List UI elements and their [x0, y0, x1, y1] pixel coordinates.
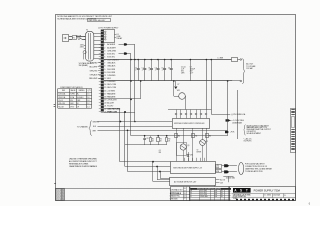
switch S1: [78, 38, 85, 39]
J1 pin stubs: [99, 45, 101, 112]
wire: [104, 109, 120, 162]
connector J3 pin 1: [222, 164, 237, 167]
connector J2 pin 2: [240, 80, 242, 82]
wire: [98, 121, 173, 123]
title block logo: [233, 188, 251, 193]
title block revisions panel: [189, 187, 231, 201]
label TO CHASSIS: [77, 121, 99, 136]
note (load requirement): [244, 124, 272, 135]
wire: [160, 172, 170, 179]
node +5.2VDC: [226, 119, 245, 124]
resistor R6: [206, 128, 212, 161]
node +12V UNREG: [211, 113, 246, 116]
wire: [119, 43, 136, 122]
wire: [214, 185, 216, 186]
title block: [170, 187, 296, 201]
capacitor C6: [168, 59, 173, 81]
inductor L1: [218, 57, 238, 61]
wire: [98, 126, 173, 128]
wire: [76, 36, 86, 38]
wire: [216, 178, 226, 181]
wire: [69, 39, 72, 41]
wire: [69, 36, 72, 38]
wire: [157, 167, 170, 180]
component value notes: [181, 66, 195, 74]
revision strip: [291, 109, 296, 153]
resistor R5: [192, 128, 198, 161]
note (asterisk): [243, 137, 252, 142]
title text: [254, 188, 281, 192]
scale ruler: [236, 199, 294, 201]
wire: [227, 80, 229, 82]
wire (return bus): [104, 80, 233, 82]
resistor R4: [175, 128, 181, 161]
wire: [127, 130, 129, 172]
wire: [125, 166, 170, 168]
cable bundle J3: [239, 163, 244, 175]
relay K1: [104, 30, 123, 43]
connector J3 pin 2: [222, 170, 237, 173]
transformer T1: [84, 30, 94, 62]
wire: [232, 80, 240, 82]
transistor Q1 with heatsink: [177, 128, 190, 156]
brace J2: [242, 59, 245, 84]
fuse F1: [72, 35, 82, 40]
capacitor C1: [135, 59, 140, 81]
wire: [119, 52, 132, 135]
connector J2 pin 1: [240, 59, 242, 61]
wire: [237, 90, 239, 139]
wire: [238, 59, 241, 61]
capacitor C2: [142, 59, 147, 81]
wire: [184, 145, 203, 161]
svg-text:-3: -3: [308, 203, 311, 206]
op-amp U1 (switched power supply controller): [173, 119, 210, 129]
title block lower cells: [232, 194, 296, 201]
wire: [125, 144, 167, 146]
resistor R2: [157, 136, 163, 145]
wire: [98, 130, 228, 132]
wire color labels: [89, 63, 101, 81]
wire (raw DC bus): [104, 59, 232, 61]
wire: [104, 111, 135, 167]
wire: [223, 176, 233, 182]
rail: [168, 109, 211, 111]
wire: [216, 182, 224, 184]
voltage selector S2: [79, 44, 95, 67]
note (output wiring): [245, 163, 273, 174]
transistor Q2: [200, 128, 208, 145]
capacitor C4: [155, 59, 160, 81]
page mark: [308, 203, 311, 206]
connector J1 pin labels: [104, 43, 120, 114]
wire: [94, 34, 101, 59]
wire: [211, 59, 213, 115]
component list table: [58, 86, 92, 109]
capacitor C7 (electrolytic): [174, 81, 179, 89]
wire: [128, 171, 171, 173]
PS1 input stubs: [185, 158, 205, 161]
power module PS1: [171, 162, 216, 174]
capacitor C8: [143, 136, 148, 145]
regulator VR1: [173, 80, 186, 109]
label 115/230: [226, 177, 236, 180]
footer rule: [55, 188, 170, 190]
wire: [153, 162, 170, 182]
wire: [206, 59, 208, 110]
misc labels: [159, 150, 201, 154]
resistor R1: [150, 136, 155, 145]
connector J1: [98, 28, 119, 113]
capacitor C3: [148, 59, 153, 81]
U1 top stub capacitors: [175, 110, 207, 119]
resistor R3: [166, 136, 172, 145]
capacitor C5: [161, 59, 166, 81]
notes (bottom left): [69, 159, 98, 168]
AC voltage detector module PS2: [170, 178, 216, 186]
connector P1 (AC line plug): [63, 35, 69, 42]
zone tick marks: [54, 105, 56, 184]
terminal block TB1: [216, 165, 222, 174]
approval stamp block: [56, 189, 65, 202]
notes block: [57, 15, 112, 22]
wire: [131, 135, 228, 137]
wire: [120, 161, 171, 163]
diode CR1: [187, 152, 193, 161]
label AC OUT: [246, 62, 256, 70]
wire: [190, 59, 192, 81]
wire (pin19 tap): [104, 80, 142, 99]
node PWR OK: [225, 81, 235, 136]
